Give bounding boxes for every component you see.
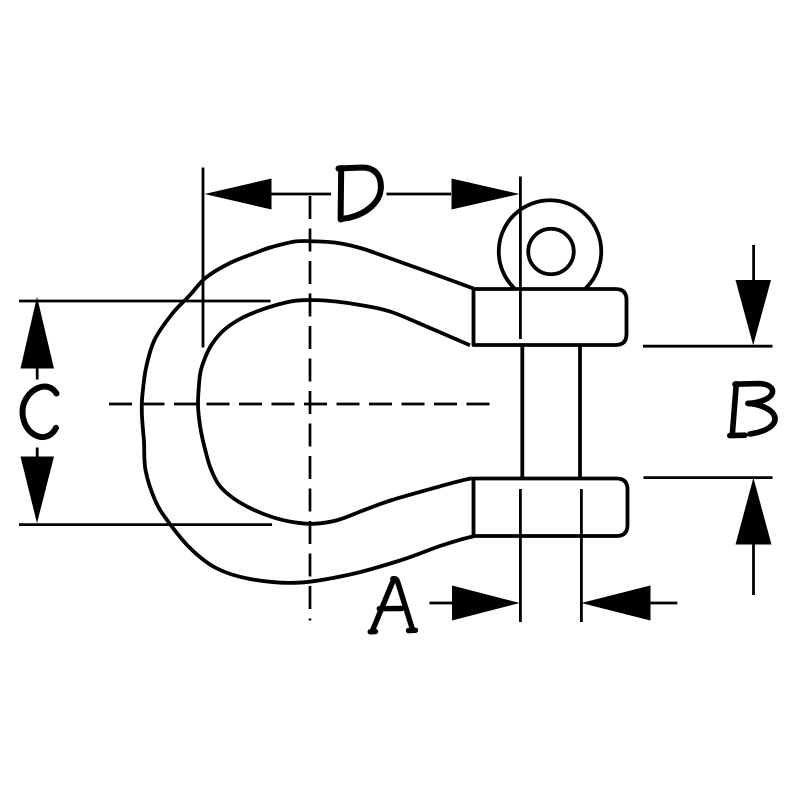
dimension C top extension line bbox=[19, 300, 271, 303]
dimension A left arrowhead bbox=[452, 586, 520, 621]
pin line through bottom lug (left, extension for A) bbox=[519, 489, 522, 622]
bottom lug bbox=[474, 479, 628, 537]
dimension A line right segment bbox=[650, 602, 677, 605]
dimension D left extension line bbox=[202, 168, 205, 348]
pin line through bottom lug (right, extension for A) bbox=[580, 489, 583, 622]
dimension C bottom extension line bbox=[19, 523, 272, 526]
dimension B bottom arrow tail bbox=[752, 544, 755, 595]
dimension D left arrowhead bbox=[205, 179, 272, 210]
pin head hole bbox=[528, 229, 574, 275]
dimension D line right segment bbox=[387, 193, 452, 196]
pin shaft left edge bbox=[520, 345, 524, 479]
top lug bbox=[474, 289, 627, 345]
dimension D line left segment bbox=[271, 193, 331, 196]
dimension B top arrowhead bbox=[736, 280, 772, 345]
dimension A line left segment bbox=[430, 602, 453, 605]
bow inner contour bbox=[198, 300, 472, 524]
dimension C top arrowhead bbox=[21, 297, 55, 369]
horizontal dashed centerline bbox=[109, 403, 491, 406]
dimension A right arrowhead bbox=[581, 586, 650, 621]
pin head outer circle bbox=[499, 200, 602, 303]
dimension B top arrow tail bbox=[752, 245, 755, 281]
wire: dimension D right extension line through pin head bbox=[519, 177, 522, 340]
label C bbox=[22, 386, 56, 437]
label D bbox=[339, 168, 381, 220]
dimension C top arrow tail bbox=[36, 368, 39, 380]
bow outer contour bbox=[142, 241, 474, 583]
dimension B top extension line bbox=[643, 345, 773, 348]
vertical dashed centerline bbox=[309, 196, 312, 621]
label B bbox=[730, 384, 775, 436]
dimension D right arrowhead bbox=[452, 179, 520, 210]
dimension B bottom arrowhead bbox=[736, 478, 772, 545]
label A bbox=[370, 579, 415, 632]
dimension C bottom arrow tail bbox=[36, 448, 39, 458]
dimension B bottom extension line bbox=[644, 476, 773, 479]
dimension C bottom arrowhead bbox=[21, 457, 55, 524]
pin shaft right edge bbox=[578, 345, 582, 479]
